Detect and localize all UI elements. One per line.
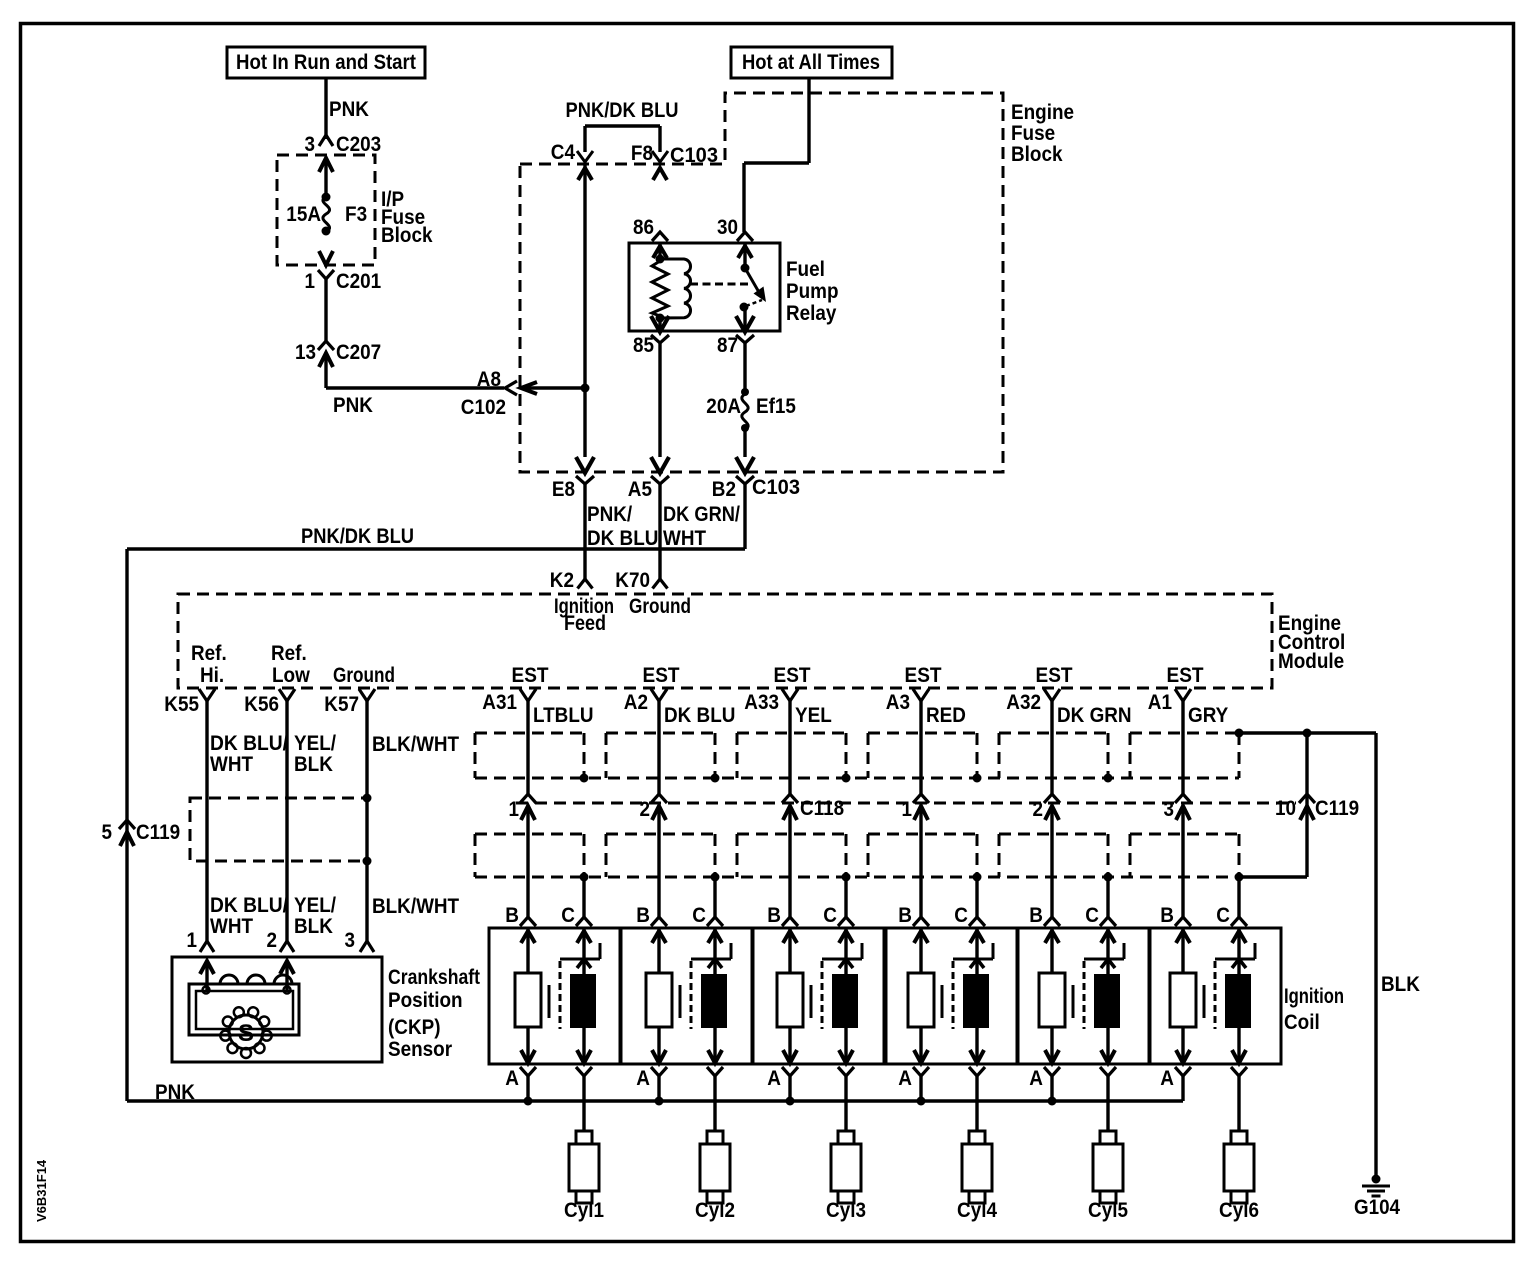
svg-text:Low: Low (272, 664, 310, 687)
svg-text:Cyl1: Cyl1 (564, 1199, 604, 1222)
svg-text:C102: C102 (461, 396, 506, 419)
svg-text:B2: B2 (712, 478, 736, 501)
svg-text:PNK/: PNK/ (587, 503, 632, 526)
svg-text:C: C (561, 904, 575, 927)
svg-text:K2: K2 (550, 569, 574, 592)
svg-text:C4: C4 (551, 141, 575, 164)
svg-text:3: 3 (305, 133, 316, 156)
svg-text:Position: Position (388, 989, 463, 1012)
svg-text:Engine: Engine (1011, 101, 1074, 124)
svg-text:DK GRN/: DK GRN/ (663, 503, 740, 526)
svg-text:Hot In Run and Start: Hot In Run and Start (236, 51, 416, 74)
svg-text:Feed: Feed (564, 612, 606, 635)
svg-text:YEL/: YEL/ (294, 732, 336, 755)
svg-text:DK BLU: DK BLU (587, 527, 658, 550)
svg-text:E8: E8 (552, 478, 575, 501)
svg-text:Ground: Ground (333, 664, 395, 687)
svg-text:A: A (636, 1067, 650, 1090)
svg-text:PNK: PNK (333, 394, 373, 417)
svg-text:A1: A1 (1148, 691, 1172, 714)
svg-text:A: A (1029, 1067, 1043, 1090)
svg-text:Ignition: Ignition (1284, 985, 1344, 1008)
svg-text:A: A (898, 1067, 912, 1090)
svg-text:87: 87 (717, 334, 738, 357)
svg-text:GRY: GRY (1188, 704, 1228, 727)
svg-text:C: C (1216, 904, 1230, 927)
svg-text:C203: C203 (336, 133, 381, 156)
svg-text:EST: EST (643, 664, 680, 687)
svg-text:A: A (505, 1067, 519, 1090)
svg-text:V6B31F14: V6B31F14 (34, 1159, 49, 1222)
svg-text:Ref.: Ref. (271, 642, 307, 665)
svg-text:A5: A5 (628, 478, 652, 501)
svg-text:WHT: WHT (210, 915, 253, 938)
svg-text:Relay: Relay (786, 302, 837, 325)
svg-text:10: 10 (1275, 797, 1296, 820)
svg-text:C119: C119 (1315, 797, 1359, 820)
svg-text:3: 3 (345, 929, 356, 952)
svg-text:(CKP): (CKP) (388, 1016, 441, 1039)
svg-text:Ground: Ground (629, 595, 691, 618)
svg-text:Pump: Pump (786, 280, 839, 303)
svg-text:Module: Module (1278, 650, 1344, 673)
svg-text:DK BLU/: DK BLU/ (210, 894, 288, 917)
svg-text:PNK: PNK (155, 1081, 195, 1104)
svg-text:B: B (898, 904, 912, 927)
svg-text:A31: A31 (482, 691, 517, 714)
svg-text:C103: C103 (752, 476, 800, 499)
svg-text:RED: RED (926, 704, 966, 727)
svg-text:EST: EST (512, 664, 549, 687)
svg-text:B: B (767, 904, 781, 927)
svg-text:85: 85 (633, 334, 654, 357)
svg-text:2: 2 (1033, 798, 1044, 821)
svg-text:15A: 15A (286, 203, 321, 226)
svg-text:C119: C119 (136, 821, 180, 844)
svg-text:Ref.: Ref. (191, 642, 227, 665)
svg-text:3: 3 (1164, 798, 1175, 821)
svg-text:C201: C201 (336, 270, 381, 293)
svg-text:EST: EST (774, 664, 811, 687)
svg-text:S: S (238, 1020, 254, 1047)
svg-text:K70: K70 (615, 569, 650, 592)
svg-text:A33: A33 (744, 691, 779, 714)
svg-text:WHT: WHT (663, 527, 706, 550)
svg-text:EST: EST (1167, 664, 1204, 687)
svg-text:K56: K56 (244, 693, 279, 716)
svg-text:A: A (1160, 1067, 1174, 1090)
svg-text:B: B (1029, 904, 1043, 927)
svg-text:20A: 20A (706, 395, 741, 418)
svg-text:Cyl3: Cyl3 (826, 1199, 866, 1222)
svg-text:A2: A2 (624, 691, 648, 714)
svg-text:5: 5 (102, 821, 113, 844)
svg-text:K57: K57 (324, 693, 359, 716)
svg-text:Block: Block (1011, 143, 1063, 166)
svg-text:BLK: BLK (1381, 973, 1420, 996)
svg-text:C: C (692, 904, 706, 927)
svg-text:A: A (767, 1067, 781, 1090)
svg-text:Hi.: Hi. (200, 664, 224, 687)
svg-text:YEL/: YEL/ (294, 894, 336, 917)
svg-text:1: 1 (187, 929, 198, 952)
svg-text:G104: G104 (1354, 1196, 1400, 1219)
svg-text:F3: F3 (345, 203, 367, 226)
svg-text:DK GRN: DK GRN (1057, 704, 1132, 727)
svg-text:C: C (954, 904, 968, 927)
svg-text:BLK: BLK (294, 753, 333, 776)
svg-text:Fuel: Fuel (786, 258, 825, 281)
svg-text:DK BLU/: DK BLU/ (210, 732, 288, 755)
svg-text:BLK: BLK (294, 915, 333, 938)
svg-text:YEL: YEL (795, 704, 832, 727)
svg-text:Sensor: Sensor (388, 1038, 452, 1061)
svg-text:PNK/DK BLU: PNK/DK BLU (301, 525, 414, 548)
svg-text:PNK/DK BLU: PNK/DK BLU (566, 99, 679, 122)
svg-text:C103: C103 (670, 144, 718, 167)
svg-text:C: C (823, 904, 837, 927)
svg-text:PNK: PNK (329, 98, 369, 121)
svg-text:Block: Block (381, 224, 433, 247)
svg-text:A3: A3 (886, 691, 910, 714)
svg-text:30: 30 (717, 216, 738, 239)
svg-text:1: 1 (902, 798, 913, 821)
svg-text:1: 1 (509, 798, 520, 821)
svg-text:Crankshaft: Crankshaft (388, 966, 480, 989)
svg-text:DK BLU: DK BLU (664, 704, 735, 727)
svg-text:Cyl4: Cyl4 (957, 1199, 997, 1222)
svg-text:B: B (505, 904, 519, 927)
svg-text:13: 13 (295, 341, 316, 364)
svg-text:WHT: WHT (210, 753, 253, 776)
svg-text:B: B (1160, 904, 1174, 927)
svg-text:Ef15: Ef15 (756, 395, 796, 418)
svg-text:F8: F8 (631, 142, 653, 165)
svg-text:EST: EST (905, 664, 942, 687)
svg-text:BLK/WHT: BLK/WHT (372, 895, 459, 918)
svg-text:86: 86 (633, 216, 654, 239)
svg-text:K55: K55 (164, 693, 199, 716)
svg-text:2: 2 (267, 929, 278, 952)
svg-text:2: 2 (640, 798, 651, 821)
svg-text:EST: EST (1036, 664, 1073, 687)
svg-text:A32: A32 (1006, 691, 1041, 714)
svg-text:Fuse: Fuse (1011, 122, 1055, 145)
svg-text:Cyl6: Cyl6 (1219, 1199, 1259, 1222)
svg-text:Cyl5: Cyl5 (1088, 1199, 1128, 1222)
svg-text:C: C (1085, 904, 1099, 927)
svg-text:C118: C118 (800, 797, 844, 820)
svg-text:C207: C207 (336, 341, 381, 364)
svg-text:Cyl2: Cyl2 (695, 1199, 735, 1222)
svg-text:1: 1 (305, 270, 316, 293)
svg-text:B: B (636, 904, 650, 927)
svg-text:Coil: Coil (1284, 1011, 1320, 1034)
svg-text:BLK/WHT: BLK/WHT (372, 733, 459, 756)
svg-text:A8: A8 (477, 368, 501, 391)
svg-text:Hot at All Times: Hot at All Times (742, 51, 880, 74)
svg-text:LTBLU: LTBLU (533, 704, 594, 727)
